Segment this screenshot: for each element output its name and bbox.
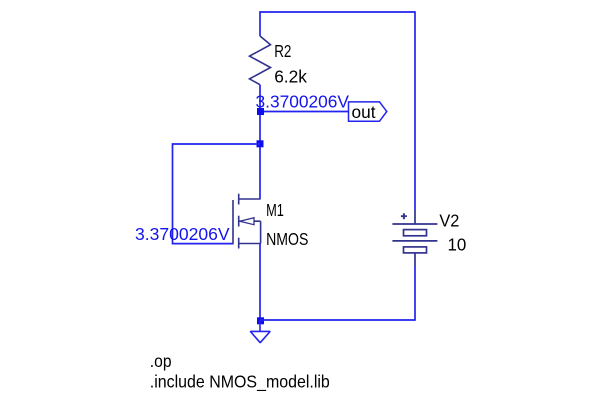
svg-text:.op: .op	[150, 351, 172, 371]
battery V2 plus sign	[401, 213, 407, 219]
svg-text:3.3700206V: 3.3700206V	[135, 224, 230, 244]
svg-text:NMOS: NMOS	[266, 229, 308, 249]
node B (feedback junction)	[257, 140, 264, 147]
transistor M1 gate line	[232, 200, 234, 244]
transistor M1 body arrow	[240, 218, 254, 225]
wire top horizontal	[260, 11, 415, 13]
svg-text:M1: M1	[266, 200, 284, 220]
ground stem	[259, 320, 261, 331]
transistor M1 body lead	[239, 220, 261, 222]
wire node1 to out flag	[260, 111, 349, 113]
wire battery right vertical top	[414, 11, 416, 210]
battery V2 top lead	[414, 210, 416, 224]
svg-text:R2: R2	[274, 41, 291, 61]
battery V2 middle plate	[392, 240, 437, 242]
wire source to ground node	[259, 244, 261, 321]
wire bottom horizontal	[260, 319, 415, 321]
transistor M1 channel bar body	[238, 216, 240, 227]
resistor R2	[250, 36, 271, 85]
node A (drain/out junction)	[257, 108, 264, 115]
battery V2 upper thick plate	[404, 230, 427, 236]
battery V2 top plate	[392, 223, 437, 225]
svg-text:out: out	[352, 102, 376, 122]
wire feedback gate loop	[173, 144, 261, 244]
svg-text:6.2k: 6.2k	[274, 67, 307, 87]
transistor M1 drain lead	[239, 198, 261, 200]
svg-text:.include NMOS_model.lib: .include NMOS_model.lib	[150, 372, 330, 393]
svg-text:10: 10	[448, 235, 467, 255]
battery V2 bottom lead	[414, 253, 416, 266]
transistor M1 body-source connection	[260, 221, 262, 243]
ground	[250, 331, 270, 342]
out flag	[349, 102, 387, 121]
wire top-left vertical to resistor	[259, 11, 261, 36]
battery V2 lower thick plate	[404, 247, 427, 253]
transistor M1 channel bar source	[238, 238, 240, 249]
wire battery bottom to ground rail	[414, 266, 416, 321]
node C (ground junction)	[257, 317, 264, 324]
transistor M1 source lead	[239, 243, 261, 245]
svg-text:V2: V2	[439, 211, 459, 231]
transistor M1 channel bar drain	[238, 194, 240, 205]
wire resistor bottom to drain	[259, 85, 261, 199]
svg-text:3.3700206V: 3.3700206V	[256, 91, 350, 111]
